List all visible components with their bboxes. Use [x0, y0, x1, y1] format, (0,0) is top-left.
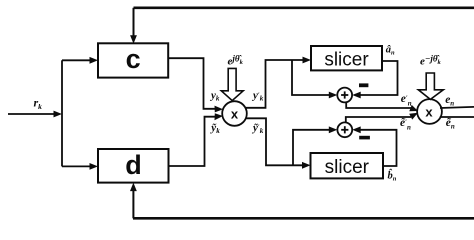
wire a^_n feedback into S1	[352, 61, 397, 98]
block c	[98, 43, 168, 77]
wire trunk to c	[62, 57, 98, 64]
svg-text:x: x	[425, 105, 433, 120]
wire S1 output e'_n to M2	[346, 102, 418, 111]
wire bottom feedback rise into d	[130, 183, 137, 219]
wire input r_k	[8, 111, 62, 118]
wire trunk to d	[62, 163, 98, 170]
svg-text:slicer: slicer	[325, 157, 370, 178]
phase rotator arrow e^-jtheta into M2	[418, 73, 443, 99]
wire c output y_k to multiplier M1	[168, 58, 223, 112]
wire S2 output e~'_n to M2	[346, 113, 418, 123]
wire top feedback	[134, 7, 474, 10]
multiplier M2	[417, 99, 442, 124]
wire y~'_k from M1 to slicer B	[246, 118, 311, 168]
wire e~_n output	[440, 116, 474, 118]
wire input trunk	[61, 60, 63, 166]
multiplier M1	[222, 101, 247, 126]
svg-text:c: c	[126, 44, 141, 74]
wire branch y~'_k to summer S2	[293, 126, 337, 165]
summer S1	[337, 88, 352, 103]
summer S2	[337, 122, 352, 137]
svg-text:x: x	[231, 106, 239, 121]
phase rotator arrow e^jtheta into M1	[221, 68, 243, 100]
wire y'_k from M1 to slicer A	[246, 57, 311, 108]
wire e_n output	[440, 107, 474, 108]
svg-text:d: d	[125, 150, 142, 180]
block d	[98, 149, 169, 183]
minus sign at S1	[359, 83, 368, 87]
svg-text:slicer: slicer	[324, 50, 369, 71]
minus sign at S2	[359, 136, 370, 140]
wire b^_n feedback into S2	[352, 126, 396, 166]
block slicer B	[311, 153, 384, 178]
wire d output y~_k to multiplier M1	[169, 113, 224, 166]
wire top feedback drop into c	[130, 8, 137, 44]
wire bottom feedback	[133, 217, 474, 220]
block slicer A	[311, 46, 382, 71]
wire branch y'_k to summer S1	[292, 60, 337, 98]
